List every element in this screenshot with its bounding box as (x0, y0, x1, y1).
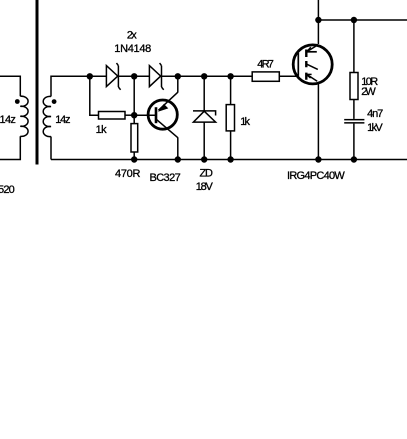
resistor R1 1k horizontal (99, 112, 126, 120)
svg-text:IRG4PC40W: IRG4PC40W (287, 170, 345, 182)
wire node A down to R 1k (90, 76, 99, 115)
wire R2 to bottom rail (133, 152, 135, 160)
node primary phase dot (15, 99, 20, 104)
wire emitter to bottom rail (317, 83, 319, 160)
node emitter bottom junction dot (315, 156, 321, 162)
transformer core (36, 0, 39, 165)
wire R5 to cap (353, 100, 355, 119)
node zener top junction dot (201, 73, 207, 79)
resistor R5 10R 2W (350, 73, 358, 100)
node E emitter top junction dot (175, 73, 181, 79)
transformer primary winding L1 (20, 96, 28, 136)
capacitor C1 4n7 1kV (344, 119, 364, 124)
svg-text:1k: 1k (240, 116, 250, 128)
wire Q1 collector to bottom rail (177, 138, 179, 160)
wire 1k right top (230, 76, 232, 104)
wire D2 cathode to gate node (162, 75, 253, 77)
wire between diodes (118, 75, 149, 77)
svg-text:14z: 14z (55, 114, 70, 126)
wire primary top (0, 76, 20, 96)
resistor R2 470R vertical (131, 124, 138, 152)
wire R1 to node C (125, 114, 134, 116)
node zener bottom junction dot (201, 156, 207, 162)
resistor R4 4R7 (252, 72, 279, 81)
node collector top junction dot (315, 17, 321, 23)
wire Q1 emitter to node E (177, 76, 179, 92)
resistor R3 1k vertical (226, 105, 234, 131)
svg-text:520: 520 (0, 184, 15, 196)
node gate resistor junction dot (227, 73, 233, 79)
svg-text:18V: 18V (196, 181, 214, 193)
wire R3 to bottom rail (230, 131, 232, 160)
svg-text:2W: 2W (361, 86, 376, 98)
svg-text:470R: 470R (115, 168, 140, 180)
transformer secondary winding L2 (43, 96, 51, 136)
wire snubber top (353, 20, 355, 73)
diode D2 1N4148 (149, 63, 163, 90)
wire collector from top rail (317, 0, 319, 44)
wire top right rail (318, 19, 407, 21)
wire primary bottom (0, 136, 20, 159)
node B junction dot (131, 73, 137, 79)
wire zener bottom (203, 122, 205, 159)
svg-text:ZD: ZD (200, 168, 213, 180)
svg-text:1k: 1k (96, 124, 108, 136)
wire zener top (203, 76, 205, 111)
node snubber bottom junction dot (351, 156, 357, 162)
wire node B down to node C (133, 76, 135, 115)
node R3 bottom junction dot (227, 156, 233, 162)
zener diode ZD 18V (193, 111, 216, 122)
wire node C to R2 (133, 115, 135, 123)
wire secondary top lead (51, 76, 106, 96)
svg-text:BC327: BC327 (150, 172, 181, 184)
node A junction dot (87, 73, 93, 79)
svg-text:4R7: 4R7 (257, 58, 274, 70)
wire base of Q1 (134, 114, 156, 116)
wire secondary bottom lead (50, 137, 52, 160)
svg-text:4n7: 4n7 (367, 108, 383, 120)
wire bottom rail (51, 159, 407, 161)
diode D1 1N4148 (106, 63, 120, 90)
transistor Q1 BC327 (148, 92, 178, 138)
node secondary phase dot (52, 99, 57, 104)
transistor U1 IRG4PC40W IGBT (293, 45, 332, 84)
wire gate (279, 75, 298, 77)
svg-text:1kV: 1kV (367, 122, 383, 134)
node C junction dot (131, 112, 137, 118)
svg-text:2x: 2x (127, 30, 137, 42)
svg-text:14z: 14z (0, 114, 16, 126)
wire cap to bottom rail (353, 124, 355, 160)
node snubber top junction dot (351, 17, 357, 23)
node Q1 collector bottom junction dot (175, 156, 181, 162)
node R2 bottom junction dot (131, 156, 137, 162)
svg-text:1N4148: 1N4148 (114, 43, 151, 55)
